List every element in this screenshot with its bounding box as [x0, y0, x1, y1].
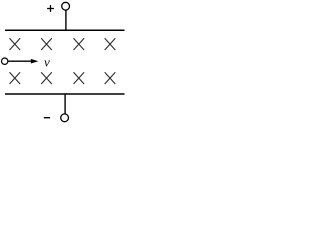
field X row2 col4 — [105, 72, 116, 84]
plus label (+ terminal) — [47, 5, 54, 12]
field X row2 col2 — [41, 72, 52, 84]
charged particle circle — [1, 58, 7, 64]
wire bottom plate to bottom terminal — [64, 94, 66, 114]
wire top terminal to top plate — [65, 10, 67, 30]
bottom capacitor plate — [5, 93, 125, 95]
field X row1 col1 — [10, 38, 21, 50]
top capacitor plate — [5, 29, 125, 31]
minus label (- terminal) — [44, 117, 50, 119]
field X row1 col2 — [41, 38, 52, 50]
field X row1 col4 — [105, 38, 116, 50]
bottom battery terminal circle — [61, 114, 69, 122]
top battery terminal circle — [62, 2, 70, 10]
velocity arrow head — [31, 59, 39, 64]
velocity arrow shaft — [8, 60, 32, 62]
field X row2 col1 — [10, 72, 21, 84]
svg-text:v: v — [44, 54, 50, 69]
field X row1 col3 — [74, 38, 85, 50]
field X row2 col3 — [74, 72, 85, 84]
